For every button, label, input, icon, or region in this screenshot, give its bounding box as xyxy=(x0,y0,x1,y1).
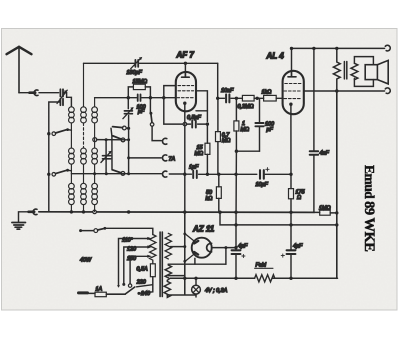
resistor 175 O xyxy=(289,189,294,199)
label 100pF xyxy=(137,104,146,115)
svg-text:Emud 89 WKE: Emud 89 WKE xyxy=(361,165,377,251)
svg-text:120: 120 xyxy=(127,247,136,253)
voice coil loop xyxy=(354,57,373,87)
tap arrows xyxy=(147,237,152,258)
svg-text:0,2MΩ: 0,2MΩ xyxy=(238,104,254,110)
rail x106 xyxy=(105,140,107,174)
connector on bus at coil L3 xyxy=(93,210,97,214)
node dot cathode/AVC xyxy=(289,173,292,176)
heater return line xyxy=(167,294,196,296)
svg-text:180pF: 180pF xyxy=(127,70,143,76)
output transformer primary xyxy=(333,48,340,91)
node dots left rail xyxy=(47,132,50,135)
wire trimmer to coil L1 top xyxy=(63,93,71,107)
AZ11 frame xyxy=(195,246,228,264)
label 0,7 MO xyxy=(222,133,231,145)
wire jack to ground xyxy=(19,212,29,222)
cathode rail AL4 xyxy=(290,104,292,225)
screen lead AF7 xyxy=(196,91,207,122)
screen top bus xyxy=(292,47,385,49)
resistor 50kO xyxy=(216,174,221,212)
AVC line with 1uF xyxy=(169,171,256,178)
switch S3 to pickup xyxy=(149,98,161,141)
ground xyxy=(12,223,26,230)
node dots B+ rail xyxy=(335,211,338,226)
corner wire to 10nF xyxy=(217,63,219,98)
plate line AL4 xyxy=(304,90,385,92)
AZ11 filament return xyxy=(168,275,185,277)
node dots B minus line xyxy=(234,223,292,226)
B minus line xyxy=(220,212,337,225)
HV secondary xyxy=(165,233,171,259)
capacitor 10nF xyxy=(216,94,236,102)
padder trimmer C-pad xyxy=(101,151,112,163)
wire jack to trimmer xyxy=(39,92,59,94)
svg-text:15MΩ: 15MΩ xyxy=(133,79,148,85)
output transformer secondary xyxy=(351,63,358,79)
fuse 1A xyxy=(95,292,106,297)
rail AZ11 center xyxy=(184,212,186,295)
resistor 15MO bridge xyxy=(128,84,150,98)
ground connector jack xyxy=(29,209,38,215)
svg-text:1kΩ: 1kΩ xyxy=(262,89,272,95)
resistor 0,2MO xyxy=(236,95,257,101)
tube AF7 xyxy=(176,63,196,111)
rail 4nF xyxy=(313,48,315,212)
svg-text:1A: 1A xyxy=(96,287,103,293)
heater line main start xyxy=(167,278,170,280)
tube AZ11 xyxy=(185,234,212,261)
capacitor 0,5uF xyxy=(187,121,208,128)
mains switch xyxy=(79,227,153,235)
tap wire 220 xyxy=(137,285,153,287)
jack C xyxy=(162,138,166,144)
wire link grid network xyxy=(236,150,259,152)
rail x111.5 xyxy=(111,128,112,170)
svg-text:150: 150 xyxy=(127,256,136,262)
svg-text:pF: pF xyxy=(266,127,274,133)
B+ rail right xyxy=(336,91,338,278)
fuse 0,5A xyxy=(150,264,155,277)
wire antenna to jack xyxy=(19,92,30,94)
svg-text:4μF: 4μF xyxy=(238,244,248,250)
wire trimmer lower section to left rail xyxy=(49,102,60,134)
svg-text:Ω: Ω xyxy=(297,195,301,201)
resistor 1MO feedback xyxy=(314,210,337,215)
label 15 MO xyxy=(195,145,204,157)
svg-text:4μF: 4μF xyxy=(293,244,303,250)
AZ11 output lead xyxy=(212,247,236,249)
band switch S2b xyxy=(93,136,130,142)
band switch S2a xyxy=(113,126,131,130)
svg-text:AL 4: AL 4 xyxy=(266,52,285,61)
bus junction dots xyxy=(70,210,293,214)
wave switch S1b xyxy=(52,169,71,176)
heater winding AZ11 xyxy=(165,264,171,278)
grid return frame AF7 xyxy=(164,86,187,126)
capacitor 4uF first xyxy=(232,225,245,278)
selector contact 150 xyxy=(128,284,131,287)
node dot xyxy=(206,122,209,125)
node dots AL4 grid line xyxy=(235,97,259,100)
label 50 kO xyxy=(206,190,213,202)
jack ext speaker bottom xyxy=(385,88,390,94)
transformer core xyxy=(160,232,162,297)
wave switch S1a xyxy=(52,128,71,135)
node AF7 top cap xyxy=(184,62,187,65)
mains plug xyxy=(79,291,96,295)
svg-text:MΩ: MΩ xyxy=(195,151,204,157)
node dots top bus xyxy=(290,47,339,50)
resistor 15MO vertical xyxy=(205,124,210,174)
HV tap to AZ11 xyxy=(170,246,185,248)
tap wire 120 xyxy=(124,247,149,283)
svg-text:10μF: 10μF xyxy=(256,182,269,188)
tap wire 150 xyxy=(130,256,149,284)
svg-text:Feld: Feld xyxy=(256,263,267,269)
dial lamp xyxy=(192,278,201,297)
selector contact 110 xyxy=(117,285,120,288)
cathode line AF7 xyxy=(184,103,186,294)
capacitor 4nF xyxy=(310,151,319,154)
field coil Feld xyxy=(255,275,275,282)
tube AL4 xyxy=(283,48,304,114)
label Feld xyxy=(255,263,273,269)
rail x128.6 (trimmer line down) xyxy=(128,116,130,174)
resistor 1kO grid stopper xyxy=(257,95,282,101)
coil L1 (col1) xyxy=(69,107,75,212)
AZ11 heater line xyxy=(168,263,226,265)
svg-text:7A: 7A xyxy=(169,157,176,163)
svg-text:220: 220 xyxy=(136,279,146,285)
node dots AVC line xyxy=(183,173,238,177)
svg-text:4V ; 0,3A: 4V ; 0,3A xyxy=(205,288,228,294)
trimmer 180pF xyxy=(131,57,143,69)
tap wire 110 xyxy=(119,239,149,286)
transformer primary xyxy=(150,235,156,264)
rail 1MO/100pF down xyxy=(235,151,237,225)
primary bottom lead xyxy=(139,277,153,294)
svg-text:pF: pF xyxy=(137,109,145,115)
svg-text:1μF: 1μF xyxy=(189,164,199,170)
svg-text:110°: 110° xyxy=(122,238,134,244)
label 1 MO xyxy=(241,121,250,133)
ground bus xyxy=(39,211,314,214)
node dot xyxy=(234,246,237,249)
selector contact 120 xyxy=(122,283,125,286)
capacitor 10uF electrolytic xyxy=(260,168,291,179)
svg-text:0,5μF: 0,5μF xyxy=(187,115,201,121)
capacitor in grid line xyxy=(138,94,141,101)
capacitor 4uF second xyxy=(281,225,295,278)
svg-text:kΩ: kΩ xyxy=(206,196,213,202)
trimmer 100pF xyxy=(123,98,134,119)
node dot plate line xyxy=(335,89,338,92)
voltage selector lever xyxy=(106,287,135,294)
resistor 0,7MO vertical xyxy=(216,98,221,174)
jack C bottom xyxy=(162,171,166,177)
svg-text:1MΩ: 1MΩ xyxy=(319,205,331,211)
node dots grid line xyxy=(127,96,166,99)
grid line AF7 xyxy=(95,97,176,99)
left rail lower xyxy=(48,134,50,212)
svg-text:40W: 40W xyxy=(80,258,92,264)
resistor 1MO vertical xyxy=(234,98,239,151)
jack ext speaker top xyxy=(385,45,390,51)
node dots AZ11 rail xyxy=(183,233,186,263)
svg-text:AF 7: AF 7 xyxy=(176,51,195,60)
trimmer C-ant (2-section) xyxy=(57,89,67,105)
svg-text:0,5A: 0,5A xyxy=(137,267,148,273)
jack C 7A xyxy=(129,155,167,161)
speaker xyxy=(365,60,388,84)
svg-text:MΩ: MΩ xyxy=(241,127,250,133)
svg-text:AZ 11: AZ 11 xyxy=(192,224,215,233)
band switch S2c xyxy=(71,170,161,176)
node dots rectified line xyxy=(183,277,293,280)
heater winding main xyxy=(164,280,170,297)
node dot xyxy=(235,150,238,153)
label 175 O xyxy=(296,189,306,201)
antenna jack xyxy=(30,90,39,96)
coil L3 (col3) xyxy=(92,98,98,212)
label 100 pF xyxy=(265,122,274,134)
svg-text:MΩ: MΩ xyxy=(222,138,231,144)
capacitor 100pF vertical xyxy=(255,98,263,151)
coil L2 (col2) xyxy=(81,63,87,212)
rectified line with field coil xyxy=(170,277,338,279)
svg-text:10nF: 10nF xyxy=(221,88,234,94)
svg-text:4nF: 4nF xyxy=(320,150,330,156)
antenna xyxy=(7,47,32,93)
grid top line AF7 xyxy=(84,62,218,64)
output transformer core xyxy=(344,62,346,79)
